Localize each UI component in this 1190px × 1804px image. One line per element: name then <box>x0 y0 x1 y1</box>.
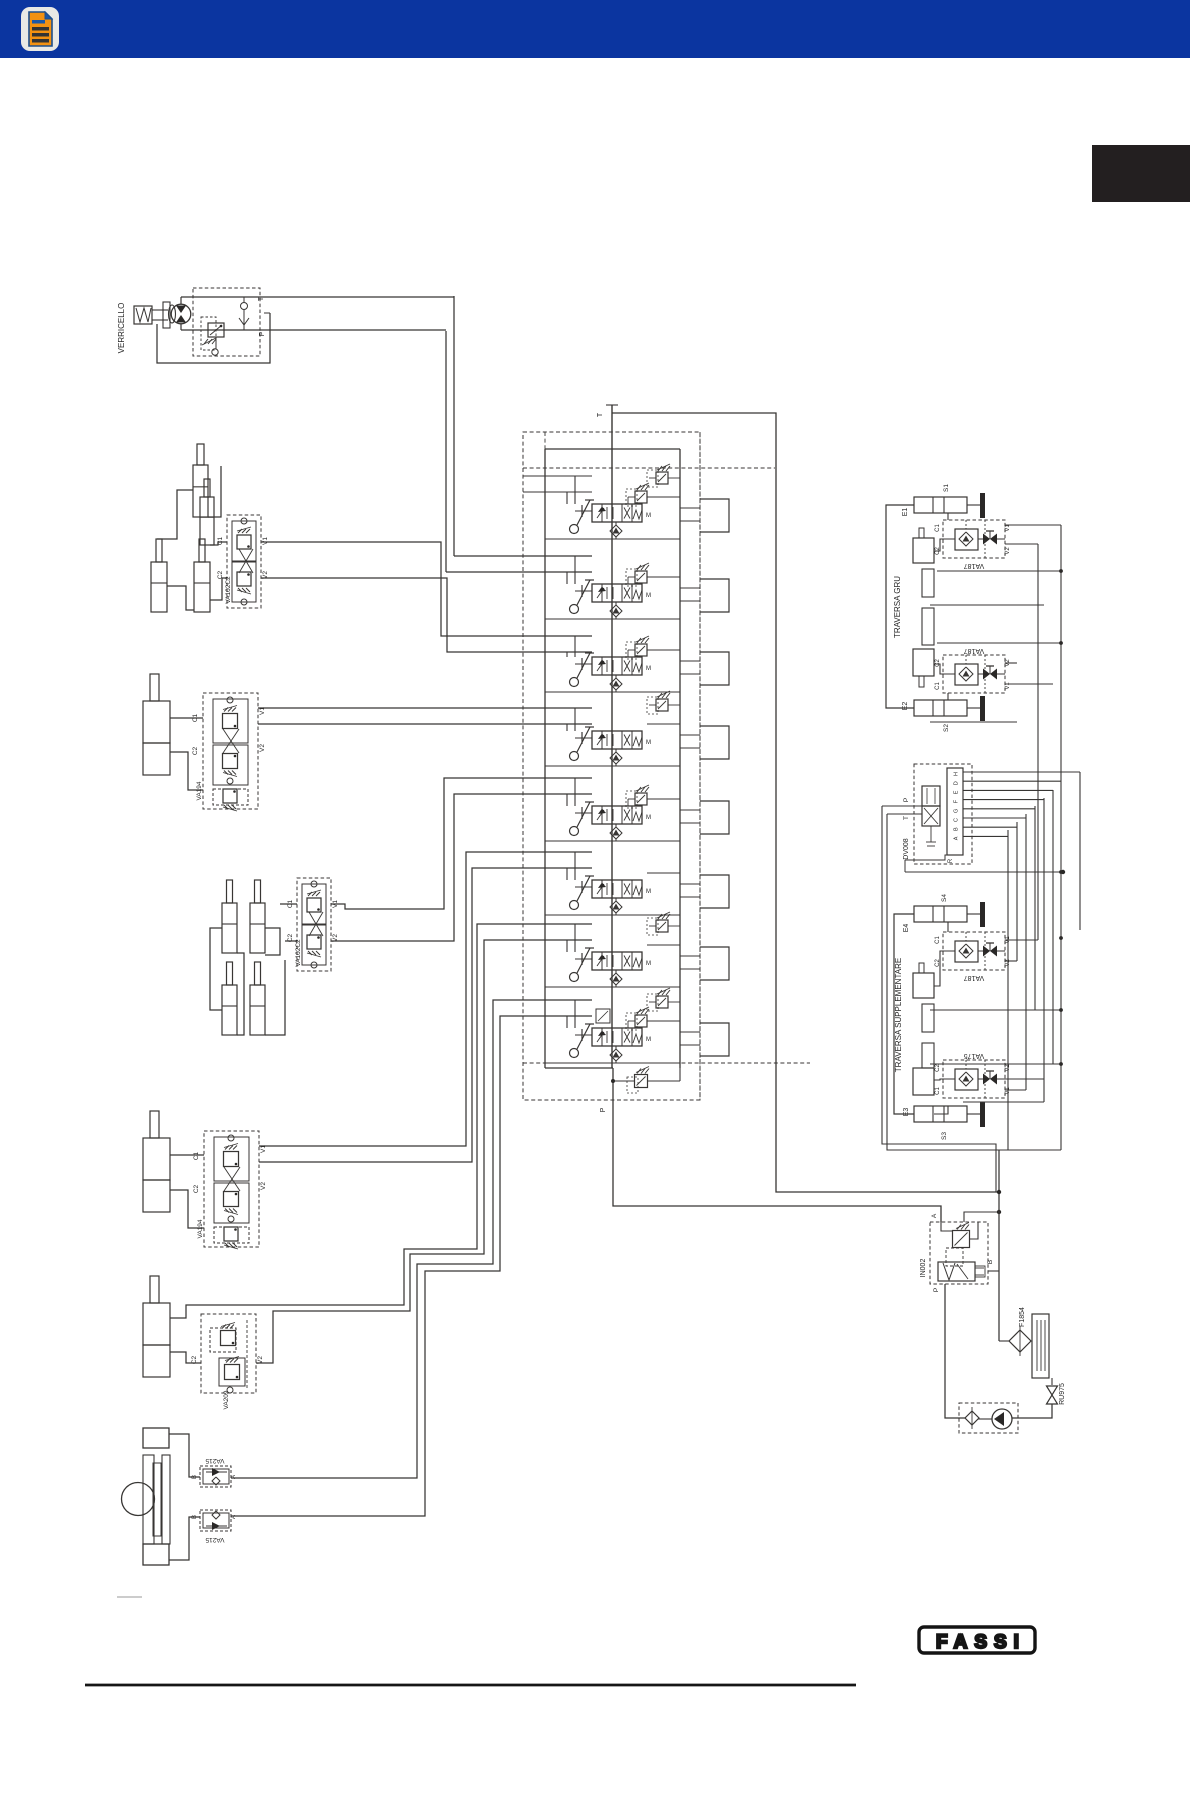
valve section 5 lever <box>577 802 590 827</box>
valve section 7 spool <box>592 952 642 970</box>
svg-text:VA175: VA175 <box>964 1052 985 1059</box>
svg-text:C2: C2 <box>935 959 941 967</box>
svg-text:VERRICELLO: VERRICELLO <box>117 303 126 354</box>
svg-text:VA194: VA194 <box>197 1219 204 1238</box>
traversa gru <box>886 484 1061 790</box>
valve section 4 spool <box>592 731 642 749</box>
valve section 8 boundary <box>545 1062 680 1064</box>
valve section 3 internal piping <box>615 690 617 692</box>
cluster1 V2 route <box>261 578 592 652</box>
svg-text:V1: V1 <box>1005 682 1011 690</box>
winch T feed vertical <box>453 296 455 556</box>
svg-text:C1: C1 <box>935 936 941 944</box>
wire tank return <box>999 1340 1009 1342</box>
VA194 group 2 <box>143 852 592 1249</box>
valve section 8 work port bracket <box>700 1023 729 1056</box>
valve block VA194 <box>203 693 258 809</box>
VA175 shutoff valve <box>983 1074 990 1085</box>
valve block DV008 <box>914 764 972 864</box>
wire winch return loop <box>157 313 270 363</box>
svg-text:B: B <box>987 1260 994 1264</box>
bank section 1 <box>523 464 729 539</box>
valve block VA187 <box>943 520 1005 558</box>
in002 <box>920 1210 1001 1418</box>
wire VA102C2-2 V1 route <box>331 778 592 909</box>
svg-text:TRAVERSA GRU: TRAVERSA GRU <box>893 576 902 638</box>
valve section 2 check valve <box>610 605 622 617</box>
bank frame <box>523 405 999 1222</box>
tank <box>1032 1314 1049 1378</box>
VA187 shutoff valve <box>983 534 990 545</box>
wire DV008 T return path <box>887 814 999 1150</box>
svg-text:TRAVERSA SUPPLEMENTARE: TRAVERSA SUPPLEMENTARE <box>894 958 903 1072</box>
valve section 8 internal piping <box>615 1061 617 1063</box>
svg-text:C1: C1 <box>217 536 224 545</box>
valve section 4 high relief valve <box>656 699 668 711</box>
bank outlet relief valve <box>635 1075 648 1088</box>
svg-text:S1: S1 <box>943 484 950 492</box>
valve bank solid frame <box>545 448 680 450</box>
bank section 3 <box>545 636 729 692</box>
bank right dashed port rail <box>699 432 701 1100</box>
svg-text:S3: S3 <box>941 1132 948 1140</box>
valve bank dashed separator bottom <box>523 1062 810 1064</box>
svg-text:M: M <box>646 740 651 746</box>
header document icon <box>21 7 59 51</box>
bank bottom relief <box>611 1067 680 1094</box>
gru internal wires <box>934 513 948 520</box>
wire cluster1 links <box>157 490 193 539</box>
svg-text:H: H <box>954 772 960 776</box>
winch group VERRICELLO <box>117 288 454 363</box>
valve section 4 internal piping <box>615 764 617 766</box>
pump P1 <box>992 1409 1012 1429</box>
cylinder <box>150 1276 159 1303</box>
valve section 5 internal piping <box>615 839 617 841</box>
wire cluster1 to valve C2 <box>210 578 227 600</box>
svg-text:G: G <box>954 809 960 813</box>
wire VA194-2 V1 route <box>259 852 592 1146</box>
DV008 port lines <box>963 771 1080 773</box>
return trunk <box>998 1150 1000 1341</box>
svg-text:VA215: VA215 <box>205 1536 224 1543</box>
valve block IN002 <box>930 1222 988 1284</box>
svg-text:E3: E3 <box>903 1108 910 1117</box>
wire cluster2 to C1 <box>280 903 297 905</box>
wire T trunk right and down <box>612 413 999 1192</box>
winch brake cylinder <box>134 306 152 324</box>
gru cylinders <box>919 528 924 538</box>
stabilizer S3 <box>914 1106 967 1122</box>
bank section 6 <box>545 852 729 915</box>
valve section 5 feed stubs <box>574 778 576 806</box>
valve section 8 lever <box>577 1024 590 1049</box>
wire VA194-2 V2 route <box>259 868 592 1162</box>
svg-text:M: M <box>646 666 651 672</box>
valve section 7 check valve <box>610 973 622 985</box>
IN002 wires <box>941 1222 953 1231</box>
valve section 6 lever <box>577 876 590 901</box>
valve block VA175 <box>943 1060 1005 1098</box>
VA187 shutoff valve <box>983 669 990 680</box>
valve section 6 boundary <box>545 914 680 916</box>
svg-text:M: M <box>646 593 651 599</box>
svg-text:C2: C2 <box>287 933 294 942</box>
svg-text:S4: S4 <box>941 894 948 902</box>
svg-text:C2: C2 <box>192 746 199 755</box>
valve section 7 high relief valve <box>656 920 668 932</box>
bank central rail <box>611 405 613 1068</box>
stabilizer S2 <box>914 700 967 716</box>
right trunk verticals <box>1037 544 1039 940</box>
valve section 6 feed stubs <box>574 852 576 880</box>
wire H port vertical <box>1079 772 1081 930</box>
valve block VA187 <box>943 932 1005 970</box>
valve section 7 work port bracket <box>700 947 729 980</box>
valve block VA215 lower <box>200 1510 231 1531</box>
svg-text:VA187: VA187 <box>964 562 985 569</box>
cylinder <box>150 1111 159 1138</box>
VA187 shutoff valve <box>983 946 990 957</box>
gru frame wires <box>886 505 914 708</box>
pinion circle <box>122 1483 155 1516</box>
svg-text:RU975: RU975 <box>1059 1383 1066 1405</box>
svg-text:T: T <box>903 816 910 820</box>
pump unit dashed box <box>959 1403 1018 1433</box>
valve section 3 feed stubs <box>574 636 576 657</box>
svg-text:T: T <box>597 412 604 417</box>
valve section 8 high relief valve <box>656 996 668 1008</box>
svg-text:M: M <box>646 961 651 967</box>
gru V lines <box>1005 524 1061 526</box>
winch P feed vertical <box>445 331 447 572</box>
svg-text:VA215: VA215 <box>205 1457 224 1464</box>
svg-text:E2: E2 <box>902 702 909 711</box>
svg-text:M: M <box>646 1037 651 1043</box>
svg-text:A: A <box>954 836 960 840</box>
svg-text:E: E <box>954 790 960 794</box>
valve section 2 boundary <box>545 618 680 620</box>
valve section 6 spool <box>592 880 642 898</box>
wire VA102C2-2 V2 route <box>331 794 592 941</box>
return filter F1854 <box>1009 1330 1031 1352</box>
valve section 3 check valve <box>610 678 622 690</box>
bank section 5 <box>545 778 729 841</box>
valve section 7 lever <box>577 948 590 973</box>
wire VA215 lower A route <box>231 1016 592 1516</box>
valve block VA194 <box>204 1131 259 1247</box>
svg-text:M: M <box>646 513 651 519</box>
svg-text:C1: C1 <box>287 899 294 908</box>
svg-text:E4: E4 <box>903 924 910 933</box>
svg-text:P: P <box>259 331 266 336</box>
svg-text:IN002: IN002 <box>920 1259 927 1278</box>
svg-text:VA209: VA209 <box>223 1390 230 1409</box>
wire VA194 V2 line <box>258 723 592 725</box>
svg-text:E1: E1 <box>902 508 909 517</box>
cylinder group 1 - telescopic cylinders <box>197 444 204 465</box>
right horizontal links <box>937 570 1061 572</box>
winch relief valve <box>208 323 224 337</box>
valve section 4 boundary <box>545 765 680 767</box>
valve section 8 feed stubs <box>574 1000 576 1028</box>
traversa supplementare <box>882 772 1080 1192</box>
valve section 7 internal piping <box>615 985 617 987</box>
svg-text:VA102C2: VA102C2 <box>225 576 232 604</box>
svg-text:A: A <box>931 1213 938 1218</box>
valve section 2 internal piping <box>615 617 617 619</box>
valve section 2 feed stubs <box>574 556 576 584</box>
DV008 R line <box>905 855 950 860</box>
wire VA209 V2 route <box>256 940 592 1363</box>
valve block VA102C2 group1 <box>217 515 269 608</box>
valve bank dashed enclosure <box>523 432 700 1100</box>
DV008 P T lines <box>882 805 922 807</box>
IN002 relief <box>953 1231 970 1248</box>
valve section 1 lever <box>577 500 590 525</box>
svg-text:P: P <box>933 1288 940 1292</box>
wire winch P line <box>181 329 446 331</box>
bank section 4 <box>545 691 729 766</box>
svg-text:C1: C1 <box>935 1087 941 1095</box>
valve section 5 relief valve <box>635 793 647 805</box>
wire IN002 P down to pump <box>945 1284 965 1418</box>
wires cylinder to VA194 <box>170 717 203 719</box>
svg-text:VA187: VA187 <box>964 974 985 981</box>
svg-text:C1: C1 <box>192 713 199 722</box>
valve section 2 lever <box>577 580 590 605</box>
valve section 3 relief valve <box>635 644 647 656</box>
svg-text:M: M <box>646 889 651 895</box>
DV008 manifold <box>947 768 963 855</box>
VA194 group 1 <box>143 674 592 811</box>
valve section 4 lever <box>577 727 590 752</box>
valve section 3 work port bracket <box>700 652 729 685</box>
valve section 1 feed stubs <box>574 476 576 504</box>
valve section 5 work port bracket <box>700 801 729 834</box>
valve section 3 lever <box>577 653 590 678</box>
svg-text:C2: C2 <box>935 659 941 667</box>
valve section 5 check valve <box>610 827 622 839</box>
valve section 1 relief valve <box>635 491 647 503</box>
wire pump to RU975 <box>1012 1404 1052 1418</box>
valve block VA209 <box>201 1314 256 1393</box>
wire DV008 P return path <box>882 806 996 1192</box>
valve section 1 check valve <box>610 525 622 537</box>
wires VA209 routes <box>170 924 592 1318</box>
wire VA194 V1 line <box>258 707 592 709</box>
pump group <box>959 1150 1066 1433</box>
wires cylinder to VA194 second <box>170 1154 204 1156</box>
valve section 6 internal piping <box>615 913 617 915</box>
svg-text:V2: V2 <box>1005 547 1011 555</box>
top trunks <box>261 296 592 652</box>
svg-text:M: M <box>646 815 651 821</box>
svg-text:VA102C2: VA102C2 <box>295 939 302 967</box>
wire cluster2 to C2 <box>285 940 297 942</box>
hydraulic motor M1 <box>169 305 176 323</box>
valve section 1 boundary <box>545 538 680 540</box>
wire cluster2 links <box>210 928 222 1010</box>
bank section 8 <box>545 988 729 1063</box>
valve section 5 boundary <box>545 840 680 842</box>
valve section 4 work port bracket <box>700 726 729 759</box>
valve bank dashed inner vertical <box>544 432 546 449</box>
cylinder group 2 - telescopic cylinders <box>227 880 233 903</box>
valve block VA187 <box>943 655 1005 693</box>
valve section 1 internal piping <box>615 537 617 539</box>
svg-text:VA187: VA187 <box>964 647 985 654</box>
svg-text:DV008: DV008 <box>903 838 910 860</box>
svg-text:FASSI: FASSI <box>936 1632 1026 1653</box>
valve section 1 work port bracket <box>700 499 729 532</box>
valve section 8 spool <box>592 1028 642 1046</box>
valve section 4 check valve <box>610 752 622 764</box>
svg-text:D: D <box>954 781 960 785</box>
svg-text:C1: C1 <box>193 1151 200 1160</box>
valve section 6 work port bracket <box>700 875 729 908</box>
cylinder <box>150 674 159 701</box>
bottom rule <box>85 1684 856 1687</box>
suction filter <box>965 1411 979 1425</box>
svg-text:F: F <box>954 799 960 803</box>
wire cluster1 to valve C1 <box>210 542 227 545</box>
valve section 3 spool <box>592 657 642 675</box>
svg-text:C2: C2 <box>935 547 941 555</box>
svg-text:C1: C1 <box>935 524 941 532</box>
valve section 2 spool <box>592 584 642 602</box>
telescopic cylinder cluster 2 <box>210 778 592 1035</box>
valve section 7 boundary <box>545 986 680 988</box>
sup frame wires <box>894 914 914 1114</box>
DV008 pilot valve <box>922 786 940 806</box>
valve block VA102C2 <box>227 515 261 608</box>
valve section 6 check valve <box>610 901 622 913</box>
valve section 8 relief valve <box>635 1015 647 1027</box>
svg-text:R: R <box>948 858 954 863</box>
sup V lines <box>1005 939 1038 941</box>
wire T tick <box>606 404 618 406</box>
svg-text:C: C <box>954 818 960 822</box>
svg-text:P: P <box>903 798 910 802</box>
valve section 2 relief valve <box>635 571 647 583</box>
valve section 5 spool <box>592 806 642 824</box>
shutoff valve RU975 <box>1047 1386 1058 1395</box>
winch feeds into bank <box>454 555 592 557</box>
junction dots right <box>1059 870 1063 874</box>
valve section 7 feed stubs <box>574 924 576 952</box>
sup internal wires <box>934 922 948 932</box>
VA209 group <box>143 924 592 1410</box>
bank section 7 <box>545 912 729 987</box>
svg-text:V1: V1 <box>262 537 269 545</box>
telescopic cylinder cluster 1 <box>143 444 228 612</box>
rotary actuator group <box>117 1000 592 1597</box>
svg-text:C1: C1 <box>935 682 941 690</box>
section 8 compensator square <box>596 1009 610 1023</box>
winch valve dashed enclosure <box>193 288 260 356</box>
svg-text:B: B <box>954 827 960 831</box>
svg-text:F1854: F1854 <box>1019 1307 1026 1327</box>
stray mark <box>117 1596 142 1598</box>
svg-text:V2: V2 <box>259 744 266 752</box>
wire VA215 upper A route <box>231 1000 592 1478</box>
svg-text:P: P <box>600 1107 607 1112</box>
right trunk vertical main <box>1060 525 1062 1150</box>
valve section 8 check valve <box>610 1049 622 1061</box>
IN002 selector <box>938 1262 975 1281</box>
dv008 <box>882 764 1080 874</box>
valve block VA215 upper <box>200 1466 231 1487</box>
svg-text:VA194: VA194 <box>196 781 203 800</box>
winch check valve <box>241 303 248 310</box>
valve section 1 spool <box>592 504 642 522</box>
wires rotary to VA215 <box>169 1434 200 1477</box>
svg-text:S2: S2 <box>943 724 950 732</box>
right trunks <box>930 525 1063 1150</box>
FASSI logo <box>919 1627 1035 1653</box>
valve section 1 feed lines <box>523 475 592 477</box>
black rectangle top right <box>1092 145 1190 202</box>
header bar <box>0 0 1190 58</box>
cluster1 V1 route <box>261 542 592 636</box>
valve bank dashed separator top <box>523 467 775 469</box>
valve block VA102C2 <box>297 878 331 971</box>
wire P trunk down to IN002 <box>613 1068 941 1222</box>
sup cylinders <box>919 963 924 973</box>
valve section 3 boundary <box>545 691 680 693</box>
valve section 4 feed stubs <box>574 708 576 731</box>
svg-text:C2: C2 <box>193 1184 200 1193</box>
valve section 2 work port bracket <box>700 579 729 612</box>
slewing rotary actuator <box>143 1428 169 1448</box>
svg-text:V2: V2 <box>260 1182 267 1190</box>
wire winch T line <box>181 296 454 298</box>
valve section 1 high relief valve <box>656 472 668 484</box>
svg-text:C2: C2 <box>217 570 224 579</box>
bank section 2 <box>545 556 729 619</box>
svg-text:C2: C2 <box>935 1064 941 1072</box>
